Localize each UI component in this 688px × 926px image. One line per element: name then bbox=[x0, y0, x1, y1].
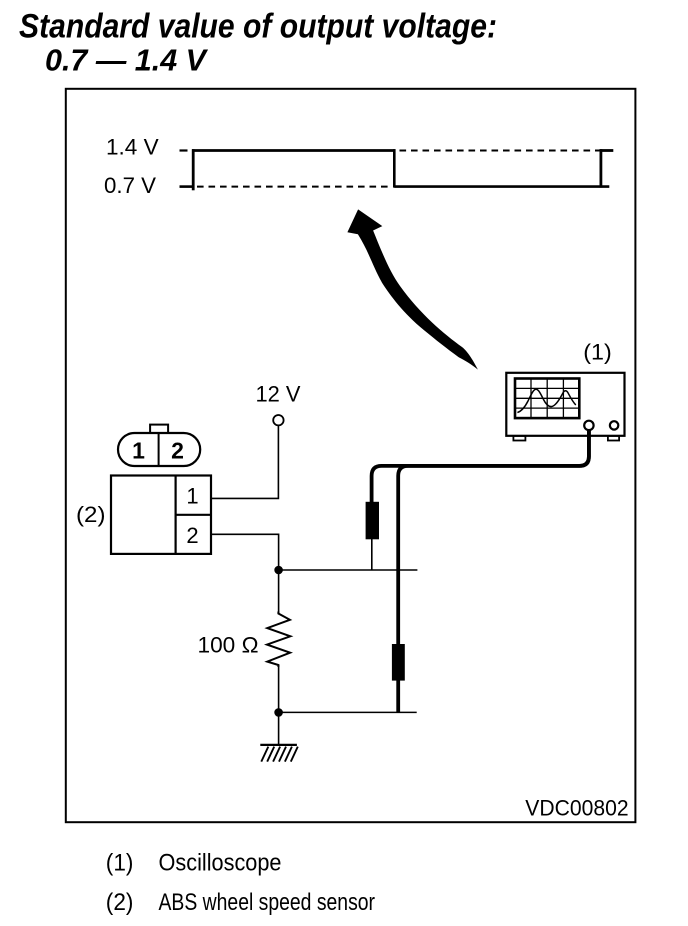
probe lead A to node bbox=[371, 539, 373, 570]
svg-text:1.4 V: 1.4 V bbox=[106, 134, 159, 159]
sensor pin compartment divider vertical bbox=[175, 476, 177, 554]
probe clip B bbox=[392, 644, 405, 681]
wire resistor to node B bbox=[278, 665, 280, 712]
probe cable A (to upper probe) bbox=[372, 429, 589, 503]
sensor body box bbox=[111, 476, 211, 554]
waveform low solid segment bbox=[394, 185, 609, 188]
waveform falling edge bbox=[393, 149, 396, 187]
waveform leading high dash bbox=[180, 149, 188, 151]
ground symbol bbox=[260, 745, 298, 762]
connector plug divider bbox=[158, 433, 160, 466]
wire node A to probe lead A bbox=[279, 569, 418, 571]
12V supply terminal bbox=[273, 415, 283, 425]
connector plug tab bbox=[150, 425, 168, 433]
waveform high right stub bbox=[600, 149, 614, 152]
svg-text:(1): (1) bbox=[583, 339, 612, 364]
wire node B to probe lead B bbox=[279, 711, 417, 713]
svg-text:1: 1 bbox=[132, 438, 145, 464]
oscilloscope screen grid bbox=[515, 379, 579, 419]
wire pin2 to node A bbox=[211, 534, 279, 570]
svg-text:(1): (1) bbox=[106, 850, 134, 877]
probe lead B to node bbox=[396, 680, 400, 712]
sensor pin compartment divider horizontal bbox=[176, 514, 211, 516]
resistor R1 zigzag bbox=[267, 612, 290, 668]
probe clip A bbox=[366, 502, 379, 540]
probe cable B (to lower probe) bbox=[398, 429, 589, 645]
waveform rising edge right bbox=[600, 149, 603, 187]
svg-text:VDC00802: VDC00802 bbox=[525, 795, 628, 820]
waveform high solid segment bbox=[192, 149, 396, 152]
node A junction dot bbox=[274, 566, 283, 575]
figure frame bbox=[66, 89, 636, 822]
node B junction dot bbox=[274, 708, 283, 717]
oscilloscope U1 body bbox=[506, 373, 624, 436]
waveform high dashed line bbox=[400, 150, 601, 152]
oscilloscope foot right bbox=[608, 436, 619, 441]
oscilloscope foot left bbox=[513, 436, 525, 441]
svg-text:Standard value of output volta: Standard value of output voltage: bbox=[19, 7, 497, 45]
oscilloscope screen bbox=[515, 379, 579, 419]
svg-text:2: 2 bbox=[171, 438, 184, 464]
svg-text:ABS wheel speed sensor: ABS wheel speed sensor bbox=[159, 889, 376, 916]
svg-text:12 V: 12 V bbox=[256, 382, 301, 407]
svg-text:1: 1 bbox=[186, 484, 198, 509]
curved arrow to waveform bbox=[347, 209, 478, 369]
waveform rising edge left bbox=[192, 149, 195, 190]
oscilloscope knob right bbox=[610, 421, 618, 429]
wire pin1 to 12V bbox=[211, 425, 278, 498]
wire node B to ground bbox=[278, 712, 280, 745]
connector plug (stadium) bbox=[118, 433, 200, 466]
svg-text:0.7 — 1.4 V: 0.7 — 1.4 V bbox=[45, 43, 208, 78]
svg-text:100 Ω: 100 Ω bbox=[198, 633, 259, 658]
svg-text:0.7 V: 0.7 V bbox=[104, 173, 156, 198]
waveform low dashed line bbox=[197, 186, 392, 188]
oscilloscope screen trace bbox=[517, 389, 575, 412]
svg-text:(2): (2) bbox=[76, 502, 106, 527]
waveform low solid left stub bbox=[180, 185, 195, 188]
wire node A to resistor bbox=[278, 570, 280, 613]
svg-text:Oscilloscope: Oscilloscope bbox=[159, 850, 282, 877]
svg-text:2: 2 bbox=[186, 523, 198, 548]
oscilloscope knob left bbox=[584, 421, 593, 430]
svg-text:(2): (2) bbox=[106, 889, 134, 916]
